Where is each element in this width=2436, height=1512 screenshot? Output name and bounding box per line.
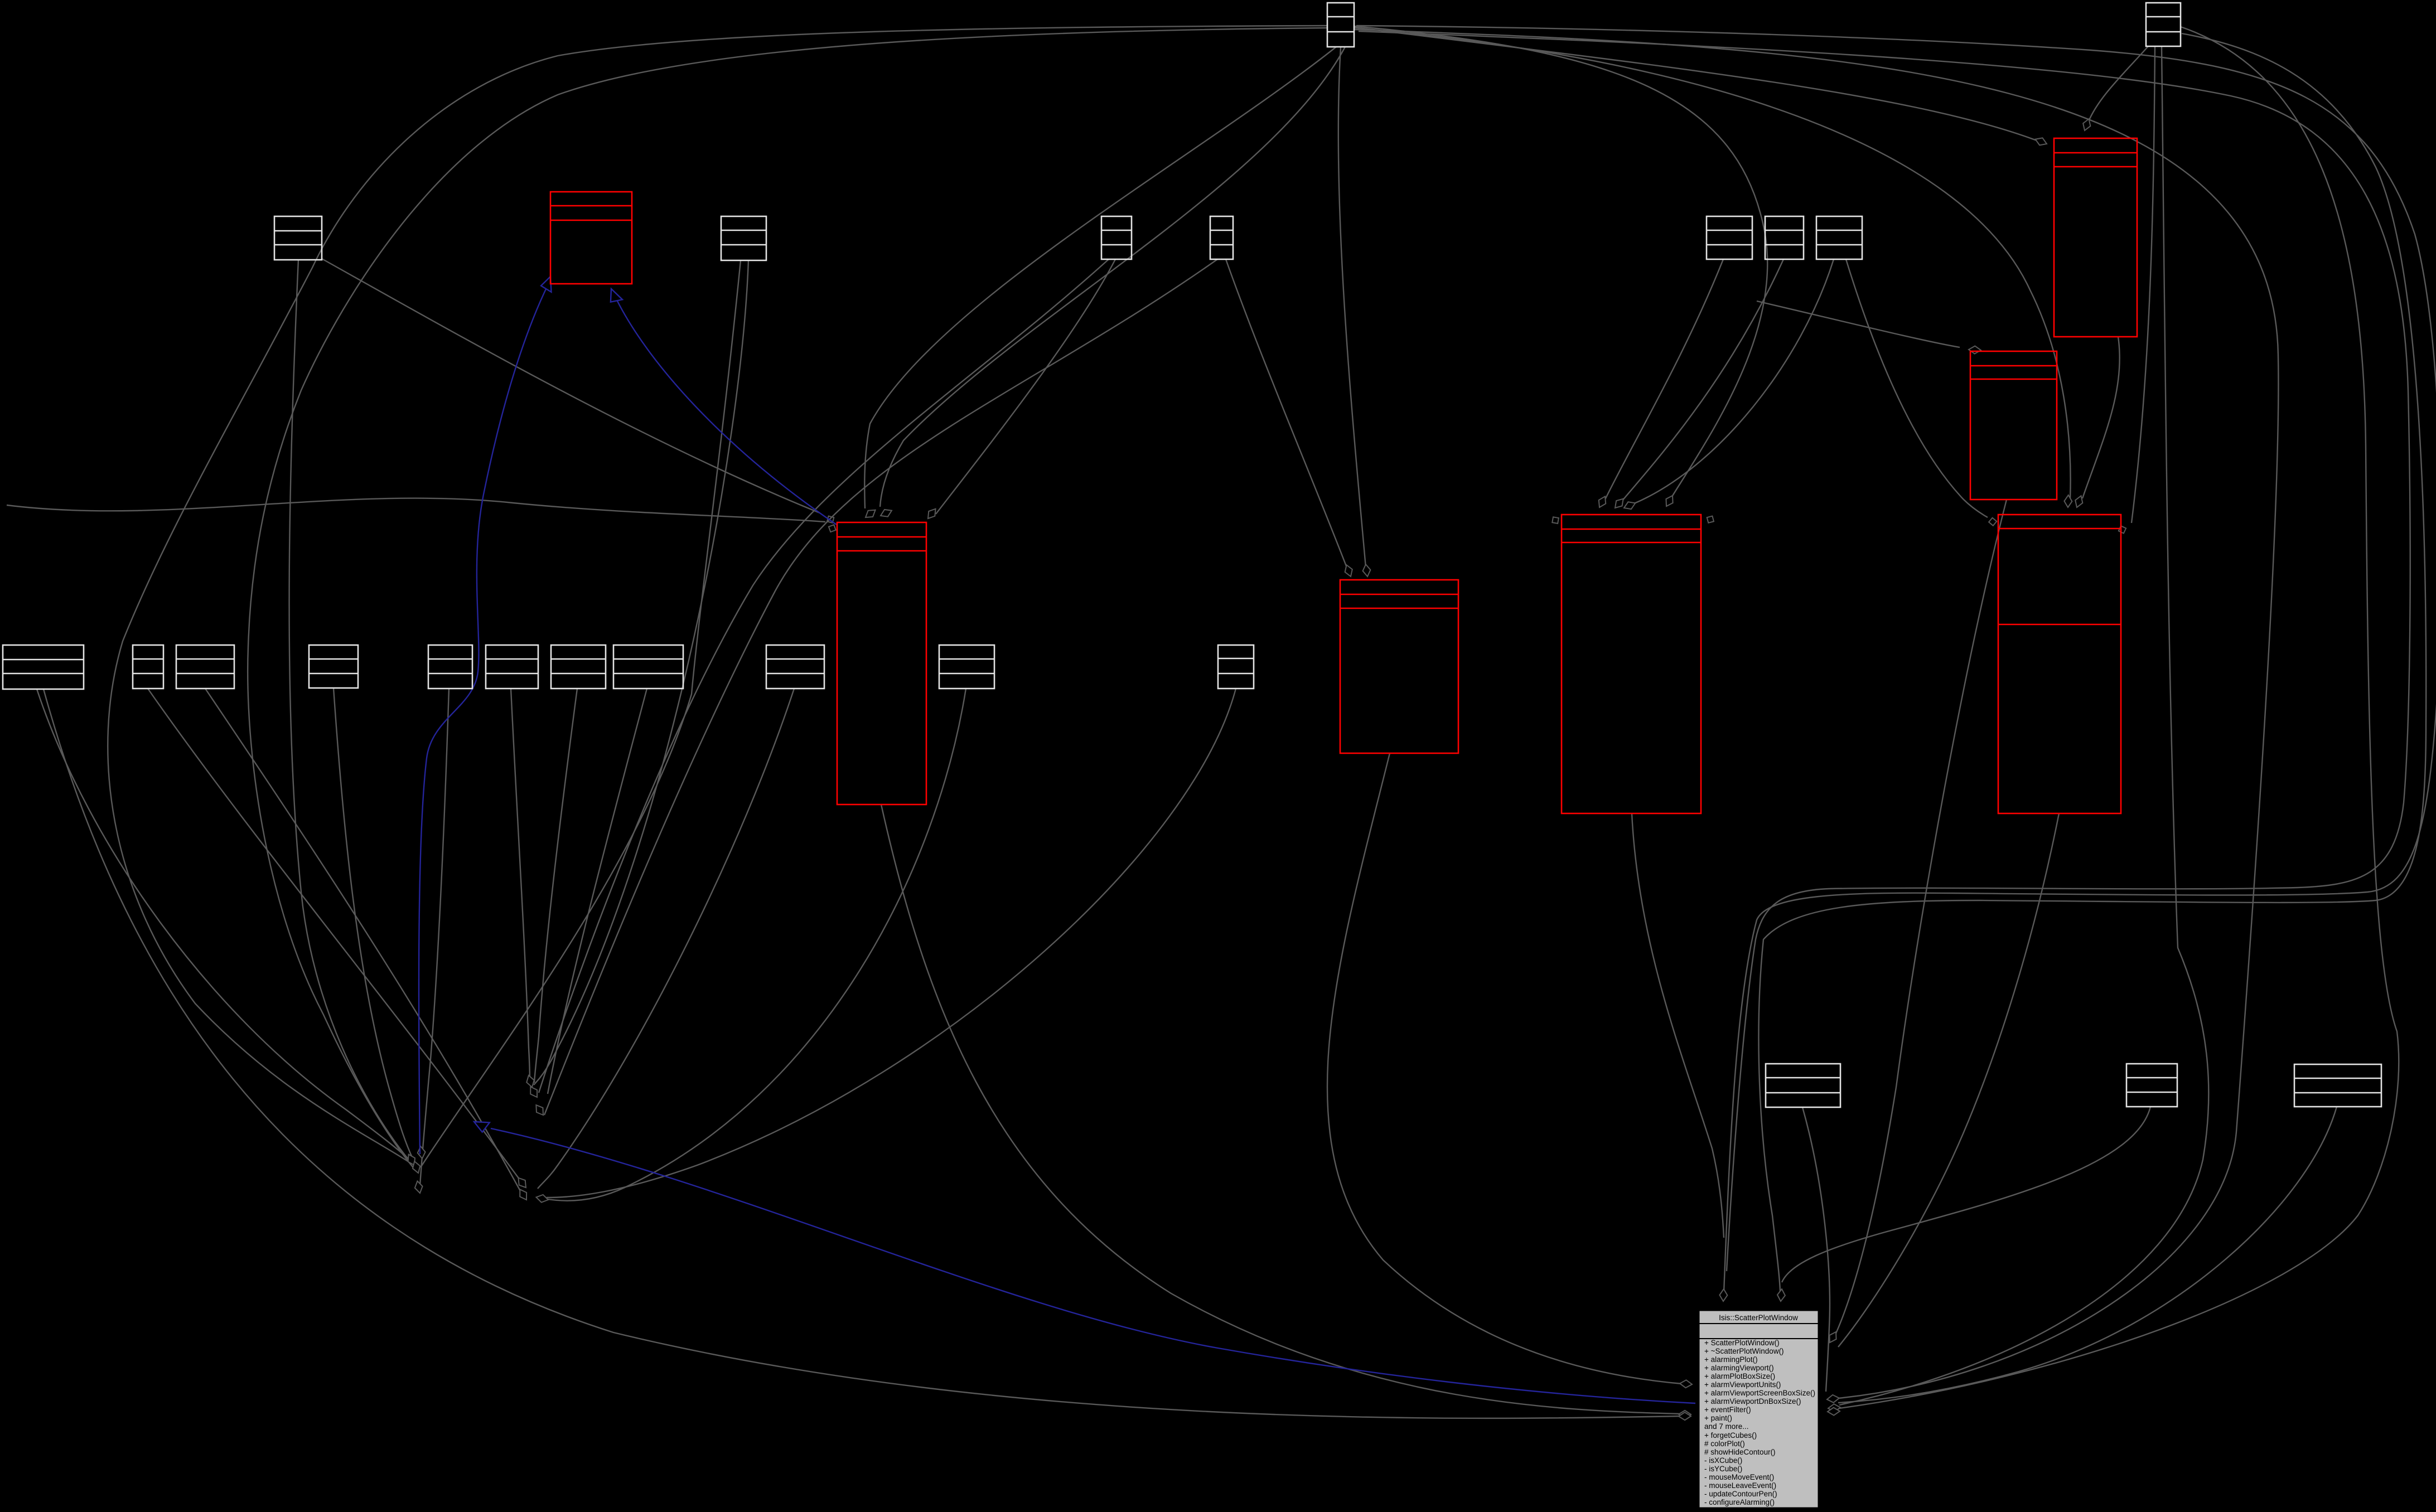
edge T1 to far-left sweep down to node N1: [108, 26, 1327, 1163]
edge L11 down-left to N2: [547, 689, 1236, 1198]
class box L10: [939, 645, 994, 689]
svg-text:+ forgetCubes(): + forgetCubes(): [1704, 1431, 1757, 1440]
edge L8 to N2: [548, 689, 647, 1094]
edge T1 to R7 diamond 1: [864, 47, 1336, 508]
central class methods: [1704, 1339, 1815, 1506]
svg-text:+ alarmViewportScreenBoxSize(): + alarmViewportScreenBoxSize(): [1704, 1389, 1815, 1397]
edge B3 bottom joining bundle to central top: [1782, 1107, 2150, 1282]
edge W2 down to N2: [534, 260, 748, 1085]
square junction R7 top-left: [827, 516, 834, 523]
edge W4 to R6 top: [1226, 259, 1347, 568]
edge W1 corner to R7 top-left: [322, 259, 820, 513]
red class box R1 top-right tall: [2054, 138, 2137, 337]
edge L10 to N2 low: [544, 689, 966, 1201]
red class box R2 upper-left: [550, 192, 632, 284]
class box L3: [176, 645, 234, 689]
edge W1 down to N1: [289, 260, 410, 1162]
edge W3 long diagonal to N2: [539, 259, 1109, 1093]
edge W7 to R4 left edge: [1846, 259, 1988, 517]
class box T2 top-right: [2146, 3, 2181, 46]
class box W6: [1765, 216, 1804, 259]
svg-text:- isYCube(): - isYCube(): [1704, 1465, 1742, 1473]
red class box R6 middle: [1340, 580, 1458, 753]
edge R3 bottom to central upper-right: [1835, 500, 2007, 1336]
edge T1 second left sweep to N1: [248, 28, 1327, 1170]
edge L2 diagonal to N2 low: [148, 689, 520, 1180]
svg-text:+ ScatterPlotWindow(): + ScatterPlotWindow(): [1704, 1339, 1780, 1347]
red class box R3 right: [1970, 351, 2057, 500]
edge T1 to R7 diamond 2: [880, 47, 1345, 507]
diamond at central right cluster: [1828, 1407, 1840, 1416]
edge T2 vertical down to R4 right edge: [2131, 46, 2155, 523]
blue long inheritance edge from central to invisible node: [491, 1128, 1695, 1403]
edge T1 to R5 top: [1354, 26, 1767, 498]
svg-text:+ paint(): + paint(): [1704, 1414, 1732, 1422]
blue inheritance edge from R7 top-left to R2 bottom: [615, 295, 837, 525]
class box W7: [1816, 216, 1862, 259]
svg-text:- updateContourPen(): - updateContourPen(): [1704, 1490, 1777, 1498]
edge W5 to R5 top: [1605, 259, 1723, 500]
red class box R4 right tall: [1998, 515, 2121, 813]
edge W7 to R5 top: [1633, 259, 1834, 504]
edge R5 bottom merging into central-top bundle: [1632, 813, 1724, 1238]
edge B2 bottom to central right: [1802, 1107, 1830, 1392]
edge T2 long vertical down to central right: [1839, 46, 2208, 1405]
edge R1 bottom to R4 top: [2082, 337, 2120, 498]
edge W4 long diagonal to N2: [544, 259, 1217, 1115]
edge L1 long arc to central left: [43, 689, 1681, 1418]
edge T2 to R1 top: [2088, 46, 2148, 123]
red class box R5 middle-right tall: [1562, 515, 1701, 813]
class box B2: [1766, 1064, 1840, 1107]
svg-text:- configureAlarming(): - configureAlarming(): [1704, 1498, 1775, 1506]
svg-text:and 7 more...: and 7 more...: [1704, 1422, 1749, 1431]
class box B4: [2294, 1064, 2381, 1107]
edge T1 to R1 left edge: [1354, 27, 2037, 140]
edge R1 bottom to R3 top-left: [1757, 301, 1960, 347]
edge T1 bottom to R6 top: [1338, 47, 1366, 568]
svg-text:Isis::ScatterPlotWindow: Isis::ScatterPlotWindow: [1719, 1314, 1798, 1322]
svg-text:+ alarmViewportUnits(): + alarmViewportUnits(): [1704, 1380, 1781, 1389]
edge T2 second loop via y1615 bundle to central top-right: [1758, 33, 2426, 1291]
svg-text:+ alarmingPlot(): + alarmingPlot(): [1704, 1355, 1758, 1364]
svg-text:+ alarmingViewport(): + alarmingViewport(): [1704, 1364, 1774, 1372]
diamond at R6 top: [1343, 564, 1355, 578]
class box L5: [428, 645, 472, 689]
class box W1: [274, 216, 322, 260]
edge R4 bottom to central upper-right: [1838, 813, 2059, 1347]
square junction R5 corners: [1552, 517, 1559, 524]
edge R6 bottom to central left: [1327, 753, 1682, 1384]
class box B3: [2126, 1064, 2177, 1107]
class box L2: [133, 645, 163, 689]
edge loop third bundle line: [1359, 31, 2410, 1271]
edge T1 long right loop via right margin and y1600 bundle to central top: [1356, 26, 2436, 1292]
svg-text:+ alarmViewportDnBoxSize(): + alarmViewportDnBoxSize(): [1704, 1397, 1801, 1406]
blue inheritance edge from N1 up to R2 corner: [419, 285, 548, 1154]
edge W6 to R5 top: [1622, 259, 1783, 501]
diamond at R7 top-right: [925, 506, 939, 521]
svg-text:- mouseLeaveEvent(): - mouseLeaveEvent(): [1704, 1481, 1776, 1490]
class box L7: [551, 645, 606, 689]
class box L8: [613, 645, 683, 689]
red class box R7 center-left tall: [837, 522, 926, 805]
edge T1 right sweep 2 to central right: [1354, 30, 2278, 1398]
edge L7 to N2: [534, 689, 577, 1083]
svg-text:+ eventFilter(): + eventFilter(): [1704, 1406, 1751, 1414]
svg-text:# colorPlot(): # colorPlot(): [1704, 1440, 1745, 1448]
svg-text:# showHideContour(): # showHideContour(): [1704, 1448, 1776, 1456]
edge L1 to N1: [37, 689, 410, 1161]
class box L9: [766, 645, 824, 689]
edge L6 to N2: [511, 689, 530, 1082]
edge T2 long right sweep at x4242 to central right: [1839, 27, 2399, 1408]
class box L1: [3, 645, 84, 689]
edge T1 to R4 top: [1354, 28, 2071, 498]
class box L4: [309, 645, 358, 688]
edge L9 long diagonal to N2 low: [538, 689, 794, 1189]
class box L11: [1218, 645, 1254, 689]
class box W4: [1210, 216, 1233, 259]
edge R7 bottom to central left: [881, 805, 1681, 1414]
svg-text:+ alarmPlotBoxSize(): + alarmPlotBoxSize(): [1704, 1372, 1775, 1380]
edge W2 down to N1: [420, 260, 741, 1167]
diamond cluster at invisible node N2: [525, 1074, 536, 1088]
svg-text:- isXCube(): - isXCube(): [1704, 1456, 1742, 1465]
class box W2: [721, 216, 766, 260]
diamond cluster at invisible node N1: [405, 1152, 418, 1167]
class box T1 top-center: [1327, 3, 1354, 47]
edge wavy from far left to R7 top-left: [7, 498, 825, 522]
edge L3 diagonal to N2 low: [205, 689, 521, 1192]
class box W5: [1707, 216, 1752, 259]
central class node Isis::ScatterPlotWindow: [1699, 1311, 1818, 1508]
svg-text:- mouseMoveEvent(): - mouseMoveEvent(): [1704, 1473, 1774, 1481]
edge W3 to R7 top-right: [936, 259, 1115, 514]
edge L5 to N1: [420, 689, 449, 1186]
svg-text:+ ~ScatterPlotWindow(): + ~ScatterPlotWindow(): [1704, 1347, 1784, 1355]
edge L4 to N1: [333, 688, 413, 1159]
class box L6: [486, 645, 538, 689]
class box W3: [1101, 216, 1132, 259]
edge B4 bottom to central right: [1838, 1107, 2337, 1403]
